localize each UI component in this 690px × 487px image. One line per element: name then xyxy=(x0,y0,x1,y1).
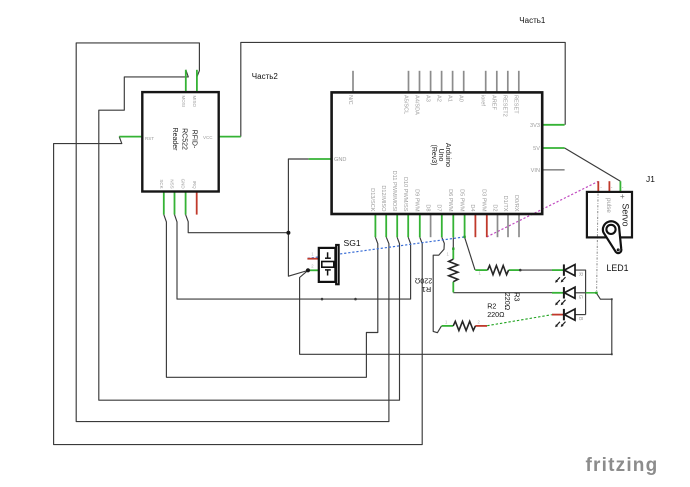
svg-text:1: 1 xyxy=(447,252,450,257)
pin Arduino A0 xyxy=(463,71,465,93)
svg-text:D6 PWM: D6 PWM xyxy=(447,189,453,212)
svg-text:R3: R3 xyxy=(512,292,521,301)
wire magenta dashed: Arduino D3 PWM to Servo pulse xyxy=(487,181,598,237)
svg-text:Reader: Reader xyxy=(171,128,178,152)
wire RST net: RFID RST to Arduino D9 xyxy=(54,137,423,445)
Servo J1 horn xyxy=(603,221,622,253)
pin Arduino D0/RX xyxy=(518,215,520,237)
svg-text:A1: A1 xyxy=(446,95,452,102)
pin Arduino 3V3 xyxy=(542,124,564,126)
svg-text:A4/SDA: A4/SDA xyxy=(413,95,419,115)
svg-text:RC522: RC522 xyxy=(181,128,188,150)
pin R2 left stub xyxy=(442,325,454,327)
wire green segment LED G to servo-pulse dropline xyxy=(586,292,597,294)
pin Arduino D11 xyxy=(396,215,398,237)
resistor R2 (horizontal, 220) xyxy=(453,321,475,330)
wire green dashed: R2 right to LED1 blue anode xyxy=(487,315,552,326)
label R2 value xyxy=(487,302,505,319)
svg-text:Часть1: Часть1 xyxy=(519,16,546,25)
pin Servo plus xyxy=(619,181,621,192)
node bendpoint R3-LED wire xyxy=(519,269,522,272)
Arduino Uno U1 box xyxy=(332,92,543,214)
node green junction D5 xyxy=(463,236,465,238)
svg-text:D10 PWM/SS: D10 PWM/SS xyxy=(402,177,408,212)
svg-text:RESET2: RESET2 xyxy=(502,95,508,117)
svg-text:B: B xyxy=(577,317,583,321)
svg-text:Servo: Servo xyxy=(621,204,631,227)
svg-text:A3: A3 xyxy=(424,95,430,102)
pin RFID IRQ xyxy=(196,191,198,214)
Servo J1 box xyxy=(587,192,632,238)
svg-text:2: 2 xyxy=(311,264,314,269)
pin Arduino AREF xyxy=(496,71,498,93)
svg-text:AREF: AREF xyxy=(491,95,497,111)
svg-text:220Ω: 220Ω xyxy=(487,310,505,319)
svg-text:D1/TX: D1/TX xyxy=(502,196,508,212)
svg-text:A5/SCL: A5/SCL xyxy=(402,95,408,114)
wire R1 bottom to LED1 green anode xyxy=(453,292,553,294)
wire R3 right to LED1 red anode xyxy=(520,269,553,271)
node bendpoint LED common top xyxy=(611,298,613,300)
node buzzer pin2 junction xyxy=(306,268,310,272)
pin Arduino D1/TX xyxy=(507,215,509,237)
svg-text:IRQ: IRQ xyxy=(192,181,197,190)
pin SG1 pin1 xyxy=(307,258,318,260)
svg-text:D8: D8 xyxy=(424,204,430,211)
label R1 value xyxy=(414,277,432,294)
buzzer SG1 body xyxy=(319,245,339,284)
svg-text:-: - xyxy=(611,185,613,191)
svg-text:LED1: LED1 xyxy=(607,263,629,273)
svg-text:2: 2 xyxy=(478,320,481,325)
svg-text:SG1: SG1 xyxy=(344,238,361,248)
svg-text:Часть2: Часть2 xyxy=(252,72,279,81)
svg-text:220Ω: 220Ω xyxy=(414,277,432,286)
svg-text:VIN: VIN xyxy=(531,168,540,174)
node bendpoint LED common bottom xyxy=(611,353,613,355)
wire grey dash-dot: Servo pulse down to LED G junction xyxy=(597,182,599,293)
pin Arduino D13 xyxy=(374,215,376,237)
pin Arduino D9 xyxy=(419,215,421,237)
wire MISO net: RFID MISO to Arduino D12/MISO xyxy=(76,43,389,422)
pin Arduino D3 xyxy=(486,215,488,237)
pin RFID RST xyxy=(119,136,143,138)
wire D7 to R2 left xyxy=(433,237,444,333)
svg-text:D12/MISO: D12/MISO xyxy=(380,185,386,212)
svg-text:A0: A0 xyxy=(458,95,464,102)
svg-text:MOSI: MOSI xyxy=(181,96,186,108)
pin Servo pulse xyxy=(597,181,599,192)
svg-text:R1: R1 xyxy=(422,285,431,294)
svg-text:NSS: NSS xyxy=(170,179,175,188)
pin LED G anode xyxy=(552,292,564,294)
wire VCC net: RFID VCC up over to Arduino 3V3 xyxy=(241,42,565,136)
pin Arduino ioref xyxy=(485,71,487,93)
LED1 B diode xyxy=(555,309,575,327)
svg-text:D5 PWM: D5 PWM xyxy=(458,189,464,212)
svg-text:GND: GND xyxy=(181,179,186,190)
svg-text:GND: GND xyxy=(334,157,346,163)
svg-text:R: R xyxy=(577,272,583,276)
svg-text:1: 1 xyxy=(311,252,314,257)
wire LED1 cathode bus xyxy=(575,270,586,315)
pin Arduino D12 xyxy=(385,215,387,237)
pin RFID SCK xyxy=(163,191,165,214)
LED1 G diode xyxy=(555,287,575,305)
pin R1 top stub xyxy=(452,249,454,260)
pin Arduino D4 xyxy=(474,215,476,237)
node bendpoint NSS wire b xyxy=(354,298,357,301)
svg-text:A2: A2 xyxy=(435,95,441,102)
svg-text:G: G xyxy=(577,295,583,299)
node GND junction at RFID/Arduino xyxy=(286,231,290,235)
svg-text:D13/SCK: D13/SCK xyxy=(369,188,375,212)
pin Arduino D10 xyxy=(407,215,409,237)
pin Arduino D6 xyxy=(452,215,454,237)
wire 5V net: Arduino 5V to Servo + xyxy=(565,148,621,181)
svg-text:D3 PWM: D3 PWM xyxy=(481,189,487,212)
pin Arduino 5V xyxy=(542,147,564,149)
svg-text:RESET: RESET xyxy=(513,95,519,114)
wire NSS net: RFID NSS to Arduino D10/SS xyxy=(175,215,411,300)
pin Arduino A1 xyxy=(452,71,454,93)
wire D6 to R1 top xyxy=(452,237,454,248)
pin R1 bottom stub xyxy=(452,282,454,293)
svg-text:D0/RX: D0/RX xyxy=(513,195,519,212)
pin SG1 pin2 xyxy=(308,269,319,271)
svg-text:(Rev3): (Rev3) xyxy=(430,144,437,165)
svg-text:RFID-: RFID- xyxy=(191,130,198,149)
pin R3 left stub xyxy=(475,269,487,271)
pin RFID VCC xyxy=(219,136,241,138)
pin Arduino D2 xyxy=(497,215,499,237)
pin RFID MOSI xyxy=(185,70,187,93)
svg-text:5V: 5V xyxy=(533,146,540,152)
wire GND net: buzzer junction to LED common xyxy=(300,270,612,354)
svg-text:D7: D7 xyxy=(436,204,442,211)
pin Arduino RESET2 xyxy=(507,71,509,93)
label R3 value xyxy=(503,292,521,311)
node green junction LED G / dropline xyxy=(595,292,597,294)
pin Arduino N/C xyxy=(352,71,354,93)
pin LED B anode xyxy=(552,314,564,316)
svg-text:pulse: pulse xyxy=(605,198,612,213)
svg-text:Uno: Uno xyxy=(437,149,444,162)
pin RFID GND xyxy=(185,191,187,214)
svg-text:VCC: VCC xyxy=(203,135,213,140)
pin R2 right stub xyxy=(475,325,487,327)
resistor R1 (vertical, 220) xyxy=(449,259,458,282)
svg-text:-: - xyxy=(622,185,624,191)
svg-text:-: - xyxy=(600,185,602,191)
svg-text:fritzing: fritzing xyxy=(586,455,659,476)
svg-text:D4: D4 xyxy=(469,204,475,211)
resistor R3 (horizontal, 220) xyxy=(488,266,509,275)
pin Arduino A3 xyxy=(430,71,432,93)
pin Arduino A2 xyxy=(441,71,443,93)
svg-text:ioref: ioref xyxy=(480,95,486,106)
svg-text:Arduino: Arduino xyxy=(444,143,451,167)
label pin numbers small xyxy=(311,252,481,325)
svg-text:D2: D2 xyxy=(491,204,497,211)
pin R3 right stub xyxy=(509,269,521,271)
label Arduino part name xyxy=(430,143,451,167)
pin LED R anode xyxy=(552,269,564,271)
svg-text:J1: J1 xyxy=(646,174,655,184)
label RFID part name xyxy=(171,128,198,152)
pin Servo minus xyxy=(608,181,610,192)
svg-text:RST: RST xyxy=(145,136,154,141)
pin Arduino D5 xyxy=(464,215,466,237)
svg-text:D11 PWM/MOSI: D11 PWM/MOSI xyxy=(391,171,397,212)
svg-text:SCK: SCK xyxy=(159,179,164,188)
wire D5 to R3 left xyxy=(465,237,475,270)
svg-text:3V3: 3V3 xyxy=(530,123,540,129)
pin Arduino A4/SDA xyxy=(419,71,421,93)
pin Arduino RESET xyxy=(518,71,520,93)
svg-text:1: 1 xyxy=(479,271,482,276)
svg-text:N/C: N/C xyxy=(347,95,353,105)
node green junction D6-R1 xyxy=(452,248,454,250)
wire blue dashed: SG1 pin1 to Arduino D5 PWM xyxy=(308,237,465,259)
wire MOSI net: RFID MOSI to Arduino D11/MOSI xyxy=(99,70,400,400)
svg-text:MISO: MISO xyxy=(192,96,197,108)
pin RFID NSS xyxy=(174,191,176,214)
wire GND net: Arduino GND down to buzzer pin2 junction xyxy=(288,159,308,276)
pin Arduino GND xyxy=(309,158,332,160)
node bendpoint NSS wire a xyxy=(321,298,324,301)
pin RFID MISO xyxy=(196,70,198,93)
svg-text:+: + xyxy=(620,192,625,201)
svg-text:D9 PWM: D9 PWM xyxy=(414,189,420,212)
RFID-RC522 U2 box xyxy=(142,92,218,191)
wire SCK net: RFID SCK to Arduino D13/SCK xyxy=(164,215,378,378)
LED1 R diode xyxy=(555,264,575,282)
svg-text:1: 1 xyxy=(445,320,448,325)
svg-text:220Ω: 220Ω xyxy=(503,293,512,311)
pin Arduino VIN xyxy=(542,169,564,171)
wire GND net: RFID GND to junction xyxy=(186,215,289,233)
pin Arduino D7 xyxy=(441,215,443,237)
pin Arduino D8 xyxy=(430,215,432,237)
pin Arduino A5/SCL xyxy=(408,71,410,93)
